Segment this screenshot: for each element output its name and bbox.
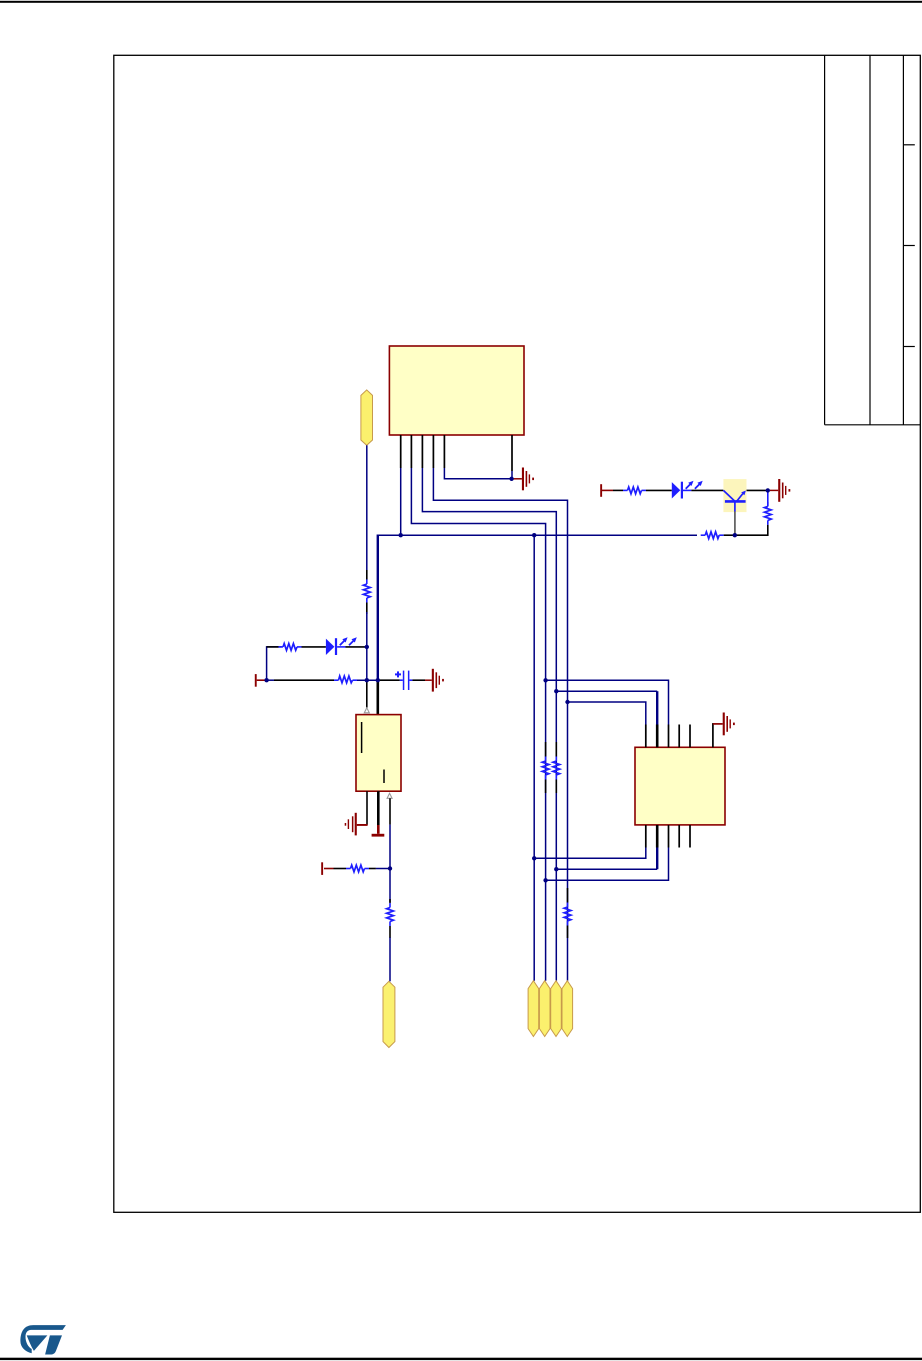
wire T4 to R6 (613, 489, 623, 491)
junction bus x534 lower (532, 856, 536, 860)
resistor R8 vertical (767, 493, 769, 507)
LED D2 (672, 482, 681, 498)
wire R8 bottom to rail (735, 525, 768, 535)
wire R1 to LED junction (366, 612, 368, 647)
wire LED branch lead (267, 646, 279, 648)
U2 body mark 1 (361, 722, 363, 753)
junction U1 pin6 ground (509, 477, 513, 481)
wire thick vertical feed x=377.8 (377, 535, 379, 681)
wire Q1 to ground junction (747, 489, 768, 491)
wire R5 to J2 (389, 938, 391, 982)
title block column line 3 (902, 55, 904, 425)
wire junction down to R5 (389, 869, 391, 903)
U3 bottom pin stub 3 (668, 825, 670, 848)
junction at T1 (264, 678, 268, 682)
wire T1 riser (267, 647, 282, 680)
wire net U1 pin5 to ground junction (444, 468, 511, 479)
wire branch x545 to U3 top pin (546, 680, 669, 724)
junction bus x545 lower (543, 878, 547, 882)
wire branch x567 to U3 top pin (568, 702, 646, 725)
U3 top pin stub 2 (supply, thick) (656, 725, 659, 748)
wire D1 to junction (346, 646, 367, 648)
U3 ground pin (712, 723, 714, 747)
U3 top pin stub 1 (645, 725, 647, 748)
terminal T1 (255, 674, 257, 687)
resistor R9 on bus x545 (545, 742, 547, 757)
connector J3 pin 3 (551, 981, 562, 1037)
wire D2 to Q1 (691, 489, 723, 491)
terminal T3 (321, 862, 323, 875)
junction bus x545 upper (543, 678, 547, 682)
connector J1 top-left pin (361, 390, 373, 445)
ground lead dark red at U1 (513, 478, 522, 480)
resistor R6 (623, 489, 628, 491)
U3 top pin stub 5 (689, 725, 691, 748)
wire branch x556 to U3 bottom pin (thick rise) (556, 868, 657, 870)
resistor R1 vertical on J1 net (366, 570, 368, 580)
resistor R5 vertical (389, 899, 391, 903)
junction bus x556 lower (554, 867, 558, 871)
junction Q1 emitter ground (766, 488, 770, 492)
junction bus x567 upper (565, 700, 569, 704)
junction at C1 branch (376, 678, 380, 682)
ground GND1 near U1 (522, 468, 534, 491)
U2 thick output pin (377, 791, 380, 825)
header rule (0, 1, 922, 3)
ST logo swoosh (20, 1325, 66, 1353)
junction R4 to R5 node (388, 866, 392, 870)
title block row tick 1 (903, 144, 914, 146)
ST logo T bar (45, 1335, 62, 1354)
U1 pin 5 stub (443, 435, 445, 468)
wire R3 to junctions (357, 679, 378, 681)
wire net U1 pin4 to bus x567 (433, 468, 567, 981)
ground GND2 (778, 479, 790, 502)
title block column line 1 (824, 55, 826, 425)
terminal T2 below U2 (377, 825, 380, 834)
wire C1 to ground (412, 679, 425, 681)
wire branch x545 to U3 bottom pin (546, 848, 669, 881)
wire thin into U2 top pin (366, 680, 368, 707)
IC U3 (right block) (635, 747, 725, 825)
wire net U1 pin3 to bus x556 (422, 468, 556, 981)
ground GND5 (723, 713, 735, 736)
capacitor C1 polarized (400, 679, 403, 681)
IC U2 (regulator) (356, 715, 401, 792)
wire U2 sense down (389, 798, 391, 824)
U3 bottom pin stub 5 (689, 825, 691, 848)
U1 pin 6 stub (511, 435, 513, 471)
ST logo middle wedge (27, 1335, 48, 1351)
U3 top pin stub 3 (668, 725, 670, 748)
title block bottom line (825, 424, 921, 426)
wire J1 down (366, 445, 368, 570)
ground GND3 (432, 669, 444, 692)
wire thick into U2 top (376, 680, 379, 714)
IC U1 (main block) (389, 346, 524, 435)
connector J3 pin 1 (528, 981, 539, 1037)
wire R6 to D2 (646, 489, 672, 491)
connector J3 pin 2 (539, 981, 550, 1037)
ground lead dark red right (770, 489, 778, 491)
title block column line 2 (869, 55, 871, 425)
U3 bottom pin stub 2 (supply, thick) (656, 825, 659, 848)
transistor Q1 highlight box (723, 479, 746, 512)
resistor R4 (346, 868, 351, 870)
wire to capacitor (378, 679, 400, 681)
junction at U2 input column (365, 678, 369, 682)
LED D2 arrows (686, 484, 691, 489)
resistor R2 (279, 646, 284, 648)
wire net U1 pin1 down (400, 468, 402, 535)
U2 ground pin wire (366, 791, 368, 825)
Q1 emitter with arrow (737, 494, 743, 501)
U2 sense pin triangle (387, 793, 392, 798)
wire net U1 pin2 to bus x545 (411, 468, 545, 981)
resistor R3 (334, 679, 339, 681)
title block row tick 2 (903, 245, 914, 247)
wire R2 to D1 (302, 646, 326, 648)
resistor R10 on bus x556 (555, 742, 557, 757)
U3 bottom pin stub 1 (645, 825, 647, 848)
ground GND4 (left facing) (345, 813, 357, 836)
U1 pin 2 stub (410, 435, 412, 468)
junction Q1 base on rail (733, 533, 737, 537)
U1 pin 1 stub (400, 435, 402, 468)
LED D1 (326, 639, 335, 655)
U2 top pin direction triangle (364, 708, 369, 713)
wire branch x534 to U3 bottom pin (534, 848, 646, 859)
footer rule (0, 1358, 922, 1360)
wire T1 lower branch (267, 679, 274, 681)
junction bus x556 upper (554, 689, 558, 693)
sheet frame (114, 55, 921, 1212)
terminal T4 top right (600, 484, 602, 497)
junction U1 pin1 on rail (399, 533, 403, 537)
Q1 base bar (725, 500, 746, 503)
junction at D1 anode net (365, 645, 369, 649)
LED D1 arrows (340, 641, 345, 646)
wire main rail y=535 (378, 534, 697, 536)
connector J3 pin 4 (562, 981, 573, 1037)
wire T3 to R4 (334, 868, 347, 870)
Q1 base lead (734, 502, 736, 511)
resistor R11 on bus x567 (567, 888, 569, 903)
U3 bottom pin stub 4 (678, 825, 680, 848)
U1 pin 3 stub (421, 435, 423, 468)
resistor R7 on rail (701, 534, 706, 536)
connector J2 bottom pin (383, 981, 395, 1047)
wire R4 to junction (369, 868, 376, 870)
U2 body mark 2 (383, 770, 385, 784)
wire branch x556 to U3 top pin (thick drop) (556, 690, 657, 692)
junction bus x534 on rail (532, 533, 536, 537)
title block row tick 3 (903, 346, 914, 348)
U1 pin 4 stub (432, 435, 434, 468)
wire junction column x366 (366, 647, 368, 680)
Q1 collector line (723, 490, 734, 501)
wire bus x=534 down to connector (533, 535, 535, 981)
U3 top pin stub 4 (678, 725, 680, 748)
